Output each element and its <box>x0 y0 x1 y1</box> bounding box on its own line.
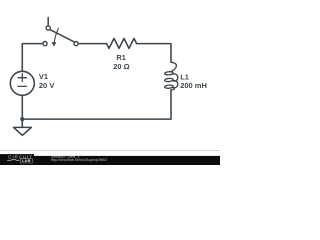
footer main bar <box>34 156 220 165</box>
wire inductor bottom to bottom-left junction <box>22 90 171 119</box>
svg-text:20 Ω: 20 Ω <box>113 62 129 71</box>
svg-text:200 mH: 200 mH <box>180 81 207 90</box>
voltage source V1 circle <box>10 71 34 95</box>
V1 minus sign <box>18 85 26 87</box>
junction dot <box>20 117 24 121</box>
svg-text:20 V: 20 V <box>39 81 54 90</box>
switch right terminal <box>74 42 78 46</box>
labels <box>39 53 207 90</box>
canvas bottom hairline <box>0 150 220 152</box>
footer logo box <box>0 154 34 165</box>
switch actuation arrow <box>54 29 58 43</box>
wire top-left corner to switch left terminal <box>22 44 43 72</box>
wire V1 bottom to ground <box>21 95 23 127</box>
footer logo wire squiggle <box>7 158 19 161</box>
svg-text:R1: R1 <box>116 53 126 62</box>
svg-text:L1: L1 <box>180 72 189 81</box>
switch arrow head <box>52 42 57 47</box>
switch SW1 stub (upper throw) <box>47 18 49 26</box>
wire switch right terminal to resistor <box>78 43 106 45</box>
wire resistor to top-right corner down to inductor <box>137 44 171 63</box>
V1 plus sign <box>18 74 26 87</box>
switch left terminal <box>43 42 47 46</box>
ground <box>14 127 32 135</box>
switch blade <box>50 30 74 42</box>
svg-text:LAB: LAB <box>22 158 31 163</box>
resistor R1 <box>107 38 137 48</box>
switch terminal circles <box>43 26 78 46</box>
svg-text:http://circuitlab.com/c/2uqzwp: http://circuitlab.com/c/2uqzwp2f6b2 <box>51 158 107 162</box>
inductor L1 <box>164 62 177 90</box>
switch top terminal <box>46 26 50 30</box>
footer logo LAB box <box>20 159 32 163</box>
